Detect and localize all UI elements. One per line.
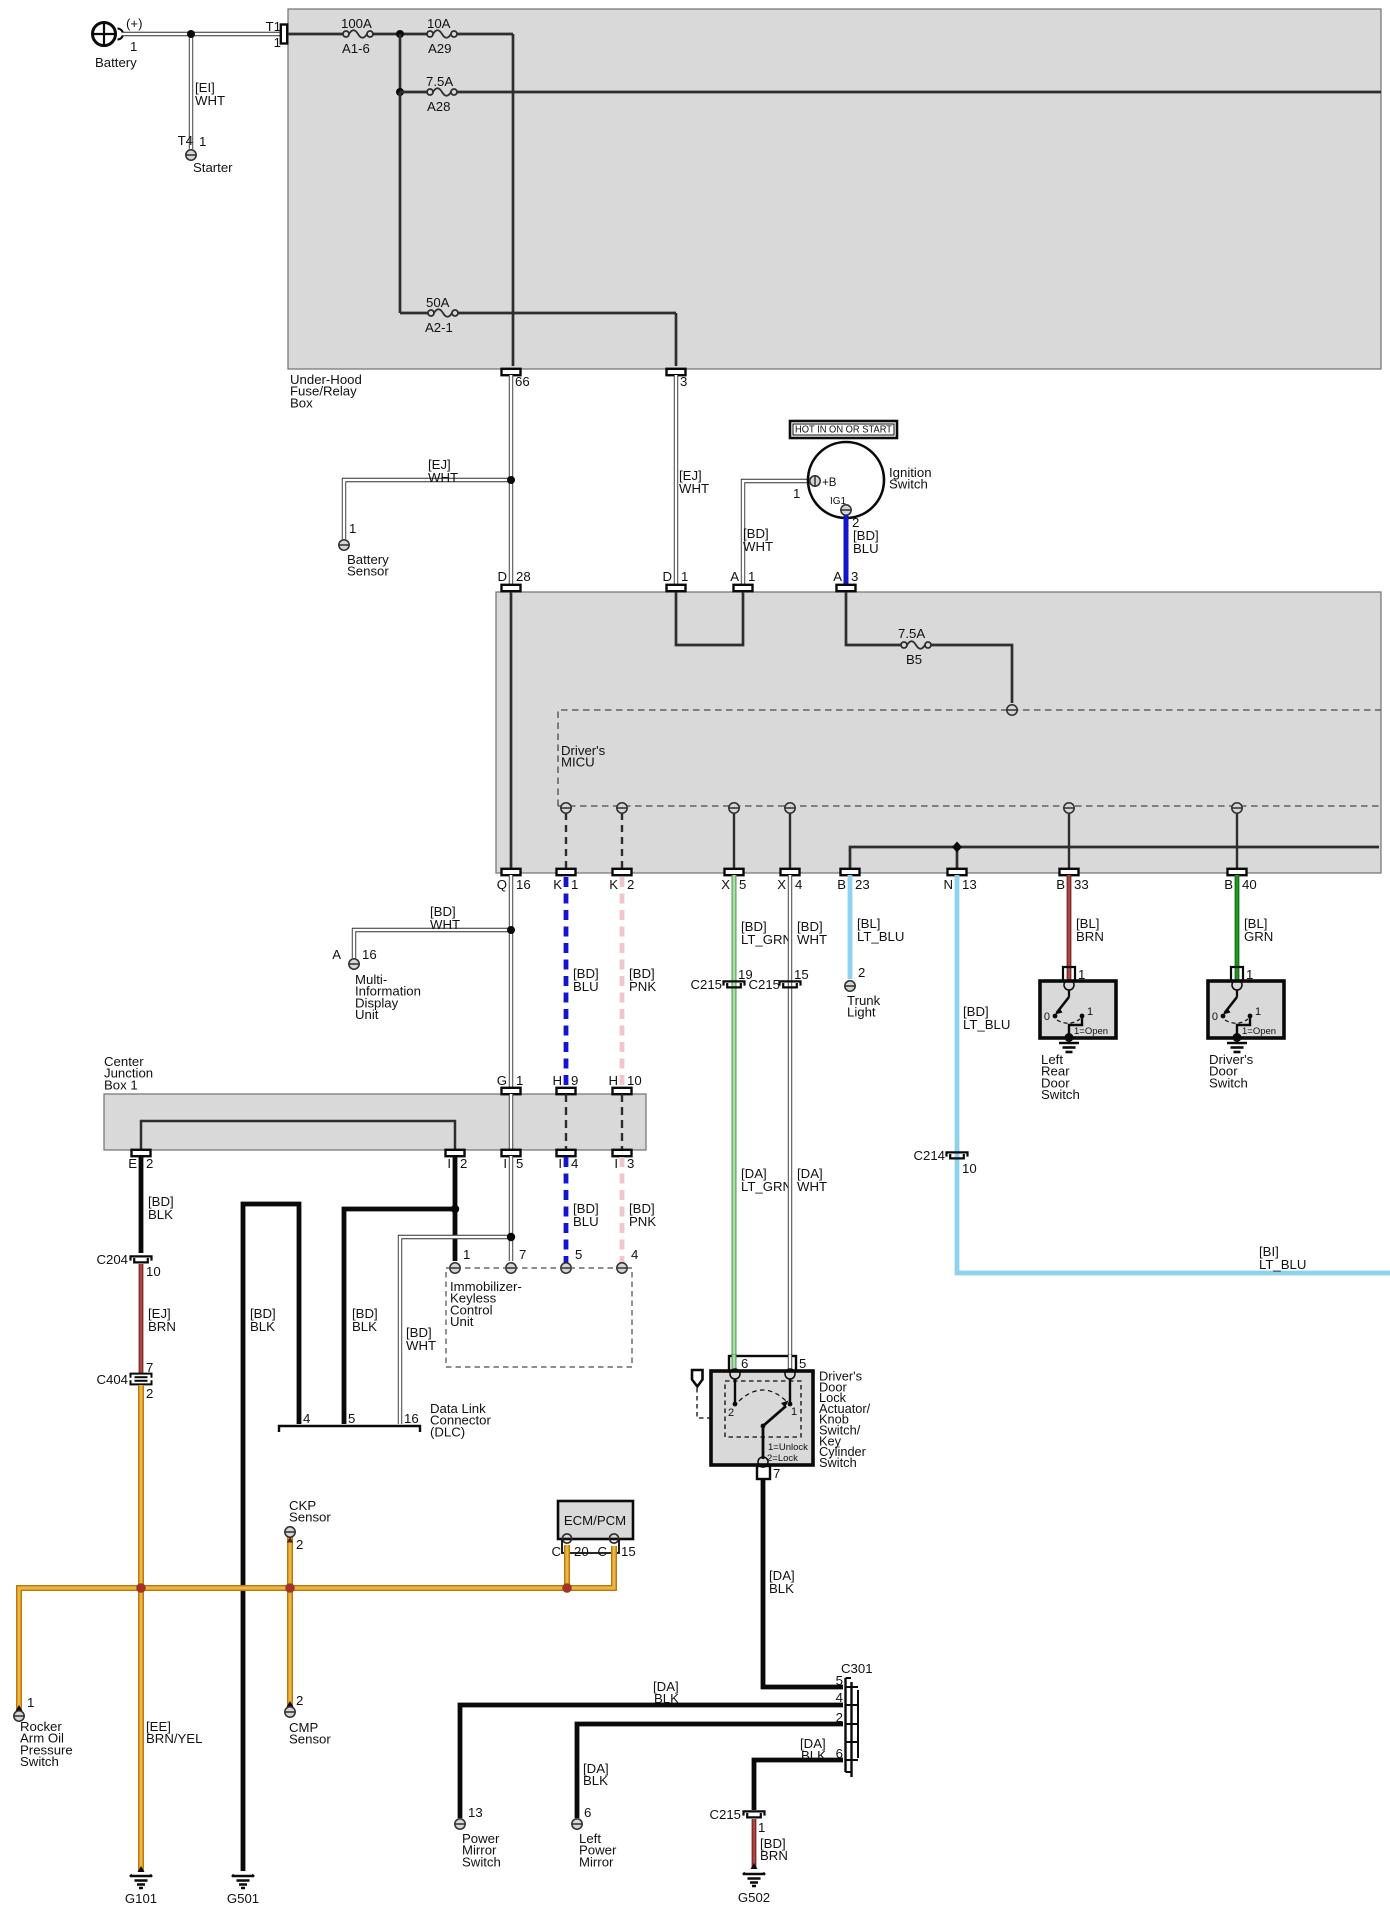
battery bbox=[93, 16, 143, 70]
immobilizer pin 5 bbox=[561, 1247, 583, 1273]
svg-text:WHT: WHT bbox=[743, 539, 773, 554]
svg-text:BRN/YEL: BRN/YEL bbox=[146, 1731, 202, 1746]
wire I3 to immobilizer pin4 (BD PNK dashed) bbox=[620, 1157, 625, 1263]
connector C204 bbox=[96, 1252, 160, 1279]
connector B40 bbox=[1224, 869, 1256, 892]
svg-text:Switch: Switch bbox=[1209, 1075, 1248, 1090]
connector D28 bbox=[497, 569, 530, 591]
svg-text:1: 1 bbox=[681, 569, 688, 584]
wire DLC pin4 to G501 (BD BLK) bbox=[243, 1204, 299, 1871]
svg-text:6: 6 bbox=[836, 1746, 843, 1761]
svg-text:66: 66 bbox=[515, 374, 530, 389]
DLC bar bbox=[279, 1411, 420, 1432]
svg-text:BRN: BRN bbox=[760, 1848, 788, 1863]
label BD BLK e2 bbox=[148, 1194, 174, 1222]
svg-text:A28: A28 bbox=[427, 99, 450, 114]
wire D28 to Q16 bbox=[510, 592, 513, 869]
svg-text:20: 20 bbox=[574, 1544, 589, 1559]
svg-text:2: 2 bbox=[627, 877, 634, 892]
svg-text:A: A bbox=[730, 569, 739, 584]
immobilizer pin 7 bbox=[506, 1247, 527, 1273]
svg-text:1: 1 bbox=[793, 486, 800, 501]
svg-text:WHT: WHT bbox=[679, 481, 709, 496]
label BD LT_BLU bbox=[963, 1004, 1010, 1032]
power mirror switch terminal bbox=[455, 1805, 501, 1869]
bus wire B23/N13 inside box bbox=[850, 847, 1379, 869]
label BD PNK bbox=[629, 966, 656, 994]
wire X5 green (BD LT_GRN) bbox=[732, 875, 737, 1371]
svg-text:Starter: Starter bbox=[193, 160, 233, 175]
MICU terminal K1 bbox=[561, 803, 571, 813]
wire CKP to CMP (EE BRN/YEL) bbox=[287, 1537, 293, 1706]
svg-text:2: 2 bbox=[728, 1407, 734, 1419]
wire branch to battery sensor (EJ WHT) bbox=[344, 480, 511, 539]
connector D1 bbox=[662, 569, 688, 591]
svg-text:LT_BLU: LT_BLU bbox=[1259, 1257, 1306, 1272]
svg-text:N: N bbox=[943, 877, 953, 892]
junction I5 bbox=[507, 1233, 515, 1241]
wire I5 to immobilizer pin7 (BD WHT) bbox=[509, 1156, 513, 1261]
stub B33 bbox=[1068, 813, 1070, 869]
svg-text:1: 1 bbox=[130, 39, 137, 54]
svg-text:BLK: BLK bbox=[250, 1319, 275, 1334]
svg-text:Q: Q bbox=[497, 877, 507, 892]
svg-text:C204: C204 bbox=[96, 1252, 128, 1267]
wire I2 to immobilizer pin1 (BD BLK) bbox=[453, 1156, 458, 1261]
connector I5 bbox=[502, 1150, 524, 1171]
svg-text:B: B bbox=[837, 877, 846, 892]
svg-text:A29: A29 bbox=[428, 41, 451, 56]
connector H10 bbox=[608, 1073, 641, 1094]
svg-text:Sensor: Sensor bbox=[347, 564, 389, 579]
connector C301 bbox=[836, 1661, 873, 1777]
label data link connector bbox=[430, 1401, 491, 1439]
svg-text:7.5A: 7.5A bbox=[898, 626, 925, 641]
svg-text:2: 2 bbox=[460, 1156, 467, 1171]
svg-text:Switch: Switch bbox=[462, 1854, 501, 1869]
connector I3 bbox=[613, 1150, 635, 1171]
svg-text:BLK: BLK bbox=[583, 1773, 608, 1788]
svg-text:BRN: BRN bbox=[1076, 929, 1104, 944]
CJB internal dashed H10-I3 bbox=[621, 1094, 623, 1150]
svg-text:BLK: BLK bbox=[801, 1748, 826, 1763]
driver's MICU fuse box bbox=[496, 592, 1381, 873]
svg-text:(+): (+) bbox=[126, 16, 142, 31]
connector K1 bbox=[553, 869, 578, 892]
wire N13 (BD LT_BLU then BI LT_BLU) bbox=[957, 875, 1390, 1273]
wire B40 (BL GRN) bbox=[1235, 875, 1240, 982]
svg-text:3: 3 bbox=[851, 569, 858, 584]
dashed link key to box bbox=[697, 1388, 710, 1418]
svg-text:Switch: Switch bbox=[20, 1754, 59, 1769]
wire E2 to C204 (BD BLK) bbox=[139, 1156, 144, 1253]
svg-text:Unit: Unit bbox=[450, 1314, 474, 1329]
svg-text:Box 1: Box 1 bbox=[104, 1077, 138, 1092]
label DA BLK lpm bbox=[583, 1761, 609, 1788]
junction battery/starter bbox=[187, 30, 195, 38]
svg-text:1=Open: 1=Open bbox=[1074, 1026, 1108, 1037]
svg-text:16: 16 bbox=[516, 877, 531, 892]
svg-text:G502: G502 bbox=[738, 1890, 770, 1905]
svg-text:2: 2 bbox=[296, 1693, 303, 1708]
junction 7.5A branch bbox=[396, 88, 404, 96]
trunk light terminal bbox=[845, 965, 881, 1020]
svg-text:7: 7 bbox=[773, 1466, 780, 1481]
svg-text:1: 1 bbox=[571, 877, 578, 892]
svg-text:1=Unlock: 1=Unlock bbox=[768, 1442, 808, 1453]
svg-text:X: X bbox=[721, 877, 730, 892]
svg-text:+B: +B bbox=[822, 477, 837, 489]
ECM connector bracket bbox=[551, 1540, 635, 1559]
svg-text:40: 40 bbox=[1242, 877, 1257, 892]
svg-text:HOT IN ON OR START: HOT IN ON OR START bbox=[795, 425, 893, 436]
wire T1 to fuses bbox=[288, 34, 513, 366]
key symbol bbox=[692, 1370, 703, 1387]
svg-text:6: 6 bbox=[584, 1805, 591, 1820]
label BD BLU low bbox=[573, 1201, 599, 1229]
svg-text:WHT: WHT bbox=[430, 917, 460, 932]
svg-text:I: I bbox=[558, 1156, 562, 1171]
svg-text:5: 5 bbox=[739, 877, 746, 892]
svg-text:H: H bbox=[608, 1073, 618, 1088]
wire A3 to fuse B5 bbox=[846, 592, 1012, 703]
svg-text:C215: C215 bbox=[709, 1807, 741, 1822]
svg-text:MICU: MICU bbox=[561, 755, 595, 770]
svg-text:Switch: Switch bbox=[819, 1455, 857, 1470]
svg-text:100A: 100A bbox=[341, 16, 372, 31]
svg-text:13: 13 bbox=[962, 877, 977, 892]
svg-text:1: 1 bbox=[274, 35, 281, 50]
connector C215 pin1 bbox=[709, 1807, 765, 1835]
svg-text:1: 1 bbox=[1255, 1006, 1261, 1018]
dashed stub K1 bbox=[565, 813, 567, 869]
svg-text:1: 1 bbox=[349, 521, 356, 536]
label BL LT_BLU bbox=[857, 916, 904, 944]
svg-text:A2-1: A2-1 bbox=[425, 320, 453, 335]
svg-text:LT_BLU: LT_BLU bbox=[963, 1017, 1010, 1032]
CJB internal dashed H9-I4 bbox=[565, 1094, 567, 1150]
label driver's door lock actuator bbox=[819, 1369, 871, 1470]
svg-text:4: 4 bbox=[571, 1156, 578, 1171]
svg-text:1: 1 bbox=[199, 134, 206, 149]
svg-text:C215: C215 bbox=[690, 977, 722, 992]
terminal 3 bbox=[667, 369, 688, 389]
svg-text:Sensor: Sensor bbox=[289, 1510, 331, 1525]
connector B33 bbox=[1056, 869, 1088, 892]
stub B40 bbox=[1236, 813, 1238, 869]
wire X5 green through connector bbox=[732, 1355, 737, 1372]
svg-text:C301: C301 bbox=[841, 1661, 873, 1676]
left rear door switch box bbox=[1040, 980, 1116, 1038]
connector K2 bbox=[609, 869, 634, 892]
svg-text:5: 5 bbox=[575, 1247, 582, 1262]
svg-text:3: 3 bbox=[627, 1156, 634, 1171]
CJB internal wire G1-I5 white bbox=[509, 1094, 513, 1150]
svg-text:BLK: BLK bbox=[769, 1581, 794, 1596]
immobilizer pin 4 bbox=[617, 1247, 639, 1273]
label BD BLU bbox=[853, 528, 879, 556]
connector I4 bbox=[557, 1150, 579, 1171]
wire D1 to A1 inside box bbox=[676, 592, 743, 645]
connector I2 bbox=[446, 1150, 468, 1171]
svg-text:C: C bbox=[551, 1544, 561, 1559]
label BD WHT x4 bbox=[797, 919, 827, 947]
label BI LT_BLU bbox=[1259, 1244, 1306, 1272]
MID unit terminal A16 bbox=[332, 947, 421, 1022]
svg-text:2: 2 bbox=[858, 965, 865, 980]
rocker arm oil pressure switch terminal bbox=[14, 1695, 73, 1769]
wire down to 50A bbox=[400, 92, 676, 366]
svg-text:BLU: BLU bbox=[573, 979, 599, 994]
label BD WHT dlc16 bbox=[406, 1325, 436, 1353]
svg-text:C404: C404 bbox=[96, 1372, 128, 1387]
wire battery to T1 (WHT) bbox=[122, 32, 284, 36]
ground G101 bbox=[125, 1866, 157, 1906]
orange bus wire (EE BRN/YEL) bbox=[19, 1546, 614, 1710]
connector H9 bbox=[552, 1073, 578, 1094]
label DA BLK doorlock bbox=[769, 1568, 795, 1596]
svg-text:BLK: BLK bbox=[352, 1319, 377, 1334]
svg-text:4: 4 bbox=[303, 1411, 310, 1426]
wire ECM C20 to bus (EE BRN/YEL) bbox=[564, 1545, 570, 1585]
svg-text:G501: G501 bbox=[227, 1891, 259, 1906]
pin 7 connector door lock bbox=[757, 1466, 780, 1481]
svg-text:16: 16 bbox=[362, 947, 377, 962]
wire C404 to G101 (EE BRN/YEL) bbox=[138, 1385, 144, 1871]
svg-text:PNK: PNK bbox=[629, 1214, 656, 1229]
svg-text:WHT: WHT bbox=[797, 932, 827, 947]
label BD LT_GRN bbox=[741, 919, 792, 947]
svg-text:LT_GRN: LT_GRN bbox=[741, 932, 792, 947]
junction orange ecm bbox=[562, 1583, 572, 1593]
svg-text:10: 10 bbox=[962, 1161, 977, 1176]
ground dot left rear door switch bbox=[1059, 1033, 1079, 1052]
stub X5 bbox=[733, 813, 735, 869]
svg-text:1: 1 bbox=[748, 569, 755, 584]
svg-text:10: 10 bbox=[627, 1073, 642, 1088]
terminal 66 bbox=[502, 369, 530, 389]
svg-text:C214: C214 bbox=[913, 1148, 945, 1163]
terminal T1 bbox=[266, 19, 288, 50]
pin 1 connector left rear door switch bbox=[1063, 967, 1085, 982]
svg-text:6: 6 bbox=[741, 1356, 748, 1371]
svg-text:A: A bbox=[833, 569, 842, 584]
label BD WHT bbox=[743, 526, 773, 554]
wire down to 7.5A bbox=[399, 34, 402, 92]
connector A1 bbox=[730, 569, 755, 591]
label BD PNK low bbox=[629, 1201, 656, 1229]
svg-text:B: B bbox=[1056, 877, 1065, 892]
svg-text:D: D bbox=[497, 569, 507, 584]
svg-text:23: 23 bbox=[855, 877, 870, 892]
svg-text:50A: 50A bbox=[426, 295, 450, 310]
driver's door switch box bbox=[1208, 980, 1284, 1038]
MICU terminal X4 bbox=[785, 803, 795, 813]
pin 1 connector driver's door switch bbox=[1231, 967, 1253, 982]
label DA BLK pms bbox=[653, 1679, 679, 1706]
connector C215 pin15 bbox=[748, 967, 808, 992]
svg-text:BLK: BLK bbox=[654, 1691, 679, 1706]
wire B33 (BL BRN) bbox=[1067, 875, 1072, 982]
svg-text:PNK: PNK bbox=[629, 979, 656, 994]
svg-text:5: 5 bbox=[836, 1673, 843, 1688]
junction EJ bbox=[507, 476, 515, 484]
junction N13 bbox=[952, 842, 962, 853]
svg-text:9: 9 bbox=[571, 1073, 578, 1088]
svg-text:WHT: WHT bbox=[428, 470, 458, 485]
svg-text:33: 33 bbox=[1074, 877, 1089, 892]
label BL GRN bbox=[1244, 916, 1273, 944]
label BL BRN bbox=[1076, 916, 1104, 944]
svg-text:GRN: GRN bbox=[1244, 929, 1273, 944]
junction orange rocker bbox=[136, 1583, 146, 1593]
immobilizer-keyless control unit box bbox=[446, 1268, 632, 1367]
svg-text:I: I bbox=[614, 1156, 618, 1171]
MICU terminal from B5 bbox=[1007, 705, 1017, 715]
svg-text:Box: Box bbox=[290, 395, 313, 410]
label EJ WHT right bbox=[679, 468, 709, 496]
connector B23 bbox=[837, 869, 869, 892]
svg-text:C: C bbox=[597, 1544, 607, 1559]
wire Q16 to G1 (BD WHT) bbox=[509, 875, 513, 1088]
connector C404 bbox=[96, 1360, 153, 1401]
svg-text:1: 1 bbox=[1087, 1006, 1093, 1018]
CKP sensor bbox=[285, 1498, 332, 1552]
svg-text:5: 5 bbox=[348, 1411, 355, 1426]
connector E2 bbox=[128, 1150, 153, 1171]
under-hood box label bbox=[290, 372, 362, 410]
svg-text:7: 7 bbox=[519, 1247, 526, 1262]
center junction box 1 bbox=[104, 1054, 646, 1150]
svg-text:2: 2 bbox=[836, 1710, 843, 1725]
battery sensor terminal bbox=[339, 521, 390, 579]
svg-text:Mirror: Mirror bbox=[579, 1854, 614, 1869]
svg-text:Light: Light bbox=[847, 1005, 876, 1020]
wire power mirror switch to C301 pin4 (DA BLK) bbox=[460, 1705, 843, 1818]
wire branch to MID unit (BD WHT) bbox=[354, 930, 511, 958]
hot in on or start tag bbox=[790, 421, 897, 438]
wire branch to starter (EI WHT) bbox=[189, 34, 193, 149]
label DA BLK pin6 bbox=[800, 1736, 826, 1763]
junction orange ckp bbox=[285, 1583, 295, 1593]
svg-text:E: E bbox=[128, 1156, 137, 1171]
svg-text:D: D bbox=[662, 569, 672, 584]
svg-text:K: K bbox=[609, 877, 618, 892]
wire 3 to D1 (EJ WHT) bbox=[674, 375, 678, 585]
fuse 50A A2-1 bbox=[425, 295, 458, 335]
svg-text:WHT: WHT bbox=[406, 1338, 436, 1353]
ground dot driver's door switch bbox=[1227, 1033, 1247, 1052]
label EJ BRN bbox=[148, 1306, 176, 1334]
svg-text:2: 2 bbox=[296, 1537, 303, 1552]
svg-text:1: 1 bbox=[758, 1820, 765, 1835]
svg-text:BLU: BLU bbox=[853, 541, 879, 556]
svg-text:B: B bbox=[1224, 877, 1233, 892]
MICU terminal K2 bbox=[617, 803, 627, 813]
CJB internal wire E2-I2 bbox=[141, 1121, 455, 1150]
svg-text:BRN: BRN bbox=[148, 1319, 176, 1334]
junction at A1-6/A29 bbox=[396, 30, 404, 38]
svg-text:I: I bbox=[447, 1156, 451, 1171]
svg-text:2=Lock: 2=Lock bbox=[767, 1453, 798, 1464]
wire I4 to immobilizer pin5 (BD BLU dashed) bbox=[564, 1157, 569, 1263]
wire C301 pin6 to C215 (DA BLK) bbox=[754, 1760, 843, 1810]
label EJ WHT left bbox=[428, 457, 458, 485]
svg-text:G: G bbox=[497, 1073, 507, 1088]
svg-text:0: 0 bbox=[1044, 1011, 1050, 1023]
svg-text:C215: C215 bbox=[748, 977, 780, 992]
svg-text:3: 3 bbox=[680, 374, 687, 389]
door lock connector bar pins 6/5 bbox=[729, 1356, 806, 1371]
svg-text:16: 16 bbox=[404, 1411, 419, 1426]
svg-text:T4: T4 bbox=[178, 133, 193, 148]
MICU terminal B33 bbox=[1064, 803, 1074, 813]
svg-text:10: 10 bbox=[146, 1264, 161, 1279]
fuse 100A A1-6 bbox=[341, 16, 373, 56]
wire A1 to ignition +B (BD WHT) bbox=[743, 481, 810, 585]
svg-text:H: H bbox=[552, 1073, 562, 1088]
svg-text:13: 13 bbox=[468, 1805, 483, 1820]
connector A3 bbox=[833, 569, 858, 591]
wire 66 to D28 (EJ WHT) bbox=[509, 375, 513, 585]
wire X4 white through connector bbox=[788, 1355, 792, 1372]
svg-text:1: 1 bbox=[516, 1073, 523, 1088]
svg-text:4: 4 bbox=[631, 1247, 638, 1262]
svg-text:A1-6: A1-6 bbox=[342, 41, 370, 56]
wire C204 to C404 (EJ BRN) bbox=[139, 1264, 144, 1373]
label BD BLU bbox=[573, 966, 599, 994]
wire branch to DLC pin16 (BD WHT) bbox=[400, 1237, 511, 1424]
svg-text:5: 5 bbox=[516, 1156, 523, 1171]
wire I2 to DLC pin5 (BD BLK) bbox=[344, 1209, 455, 1424]
svg-text:LT_GRN: LT_GRN bbox=[741, 1179, 792, 1194]
fuse 10A A29 bbox=[427, 16, 457, 56]
starter terminal T4 bbox=[178, 133, 234, 175]
svg-text:2: 2 bbox=[146, 1386, 153, 1401]
svg-text:1: 1 bbox=[463, 1247, 470, 1262]
under-hood fuse/relay box bbox=[288, 9, 1381, 369]
svg-text:B5: B5 bbox=[906, 652, 922, 667]
svg-text:Switch: Switch bbox=[1041, 1087, 1080, 1102]
connector C215 pin19 bbox=[690, 967, 752, 992]
fuse 7.5A A28 bbox=[426, 74, 457, 114]
svg-text:(DLC): (DLC) bbox=[430, 1424, 465, 1439]
connector X5 bbox=[721, 869, 746, 892]
wire C215 to G502 (BD BRN) bbox=[752, 1819, 757, 1868]
connector X4 bbox=[777, 869, 802, 892]
label BD BLK dlc5 bbox=[352, 1306, 378, 1334]
svg-text:2: 2 bbox=[146, 1156, 153, 1171]
ECM/PCM box bbox=[558, 1501, 633, 1543]
svg-text:5: 5 bbox=[799, 1356, 806, 1371]
MICU terminal B40 bbox=[1232, 803, 1242, 813]
connector Q16 bbox=[497, 869, 531, 892]
label BD WHT bbox=[430, 904, 460, 932]
wire X4 white (BD WHT) bbox=[788, 875, 792, 1371]
CMP sensor bbox=[285, 1693, 332, 1747]
label DA LT_GRN bbox=[741, 1166, 792, 1194]
svg-text:15: 15 bbox=[794, 967, 809, 982]
svg-text:Sensor: Sensor bbox=[289, 1732, 331, 1747]
label DA WHT bbox=[797, 1166, 827, 1194]
connector N13 bbox=[943, 869, 976, 892]
svg-text:1: 1 bbox=[791, 1406, 797, 1418]
wire K2 to H10 (BD PNK dashed) bbox=[620, 877, 625, 1088]
svg-text:Switch: Switch bbox=[889, 477, 928, 492]
svg-text:K: K bbox=[553, 877, 562, 892]
svg-text:ECM/PCM: ECM/PCM bbox=[564, 1513, 626, 1528]
immobilizer pin 1 bbox=[450, 1247, 471, 1273]
